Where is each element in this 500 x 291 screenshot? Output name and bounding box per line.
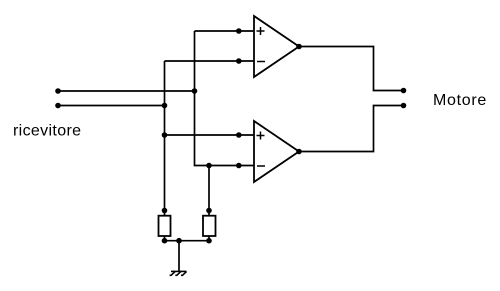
resistor R2 xyxy=(203,216,216,236)
op-amp U1 minus label xyxy=(257,61,265,63)
node junction line2 / bus A xyxy=(162,103,168,109)
node motor terminal 1 xyxy=(401,88,407,94)
node U1 plus pin xyxy=(236,28,242,34)
wire receiver line 2 xyxy=(58,105,165,107)
wire R2 drop xyxy=(208,166,210,217)
wire U1 plus input xyxy=(195,30,255,32)
node ground junction xyxy=(176,238,182,244)
wire ground stem xyxy=(178,241,180,272)
wire R1 bottom stub xyxy=(164,236,166,241)
op-amp U2 minus label xyxy=(257,165,265,167)
resistor R1 xyxy=(159,216,171,236)
node motor terminal 2 xyxy=(401,103,407,109)
op-amp U1 plus label xyxy=(257,27,265,35)
wire U2 plus input xyxy=(165,134,255,136)
node R1 top xyxy=(162,208,168,214)
wire vertical bus A (x=164.5) xyxy=(164,61,166,216)
node U1 minus pin xyxy=(236,58,242,64)
ground xyxy=(170,271,187,275)
node junction R2 / U2 minus xyxy=(206,163,212,169)
node receiver pin 2 xyxy=(55,103,61,109)
node R2 bottom xyxy=(206,238,212,244)
wire U1 minus input xyxy=(165,60,255,62)
wire R2 bottom stub xyxy=(208,236,210,241)
op-amp U2 xyxy=(254,121,299,182)
node U2 minus pin xyxy=(236,163,242,169)
node R2 top xyxy=(206,208,212,214)
node U2 output xyxy=(296,149,302,155)
op-amp U2 plus label xyxy=(257,132,265,140)
wire bottom bus xyxy=(165,240,210,242)
node U2 plus pin xyxy=(236,132,242,138)
svg-text:Motore: Motore xyxy=(433,92,487,109)
wire receiver line 1 xyxy=(58,90,195,92)
wire U1 output to motor terminal 1 xyxy=(299,47,404,91)
node U1 output xyxy=(296,44,302,50)
node receiver pin 1 xyxy=(55,88,61,94)
wire vertical bus B with corner to U2 minus xyxy=(195,31,255,166)
node junction line1 / bus B xyxy=(192,88,198,94)
node R1 bottom xyxy=(162,238,168,244)
wire U2 output to motor terminal 2 xyxy=(299,106,404,152)
op-amp U1 xyxy=(254,16,299,77)
svg-text:ricevitore: ricevitore xyxy=(13,123,81,140)
node junction bus A / U2 plus xyxy=(162,132,168,138)
